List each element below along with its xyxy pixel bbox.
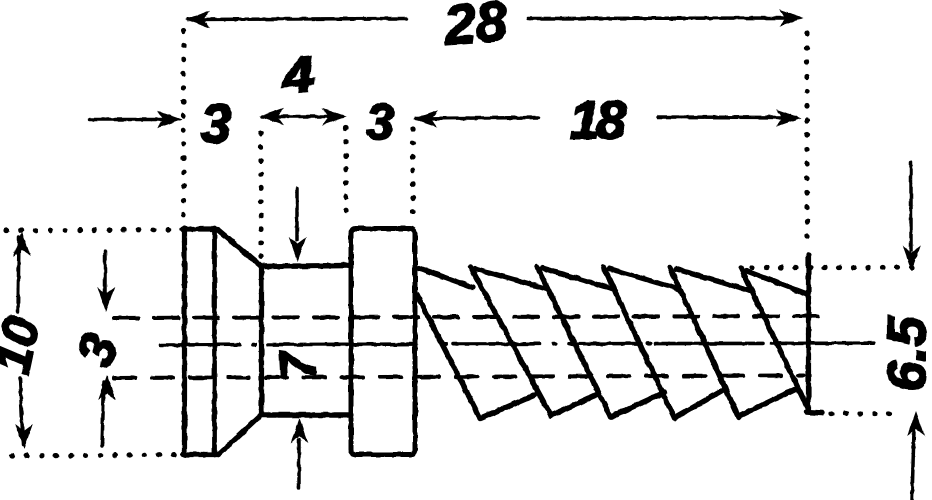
thread flank 3: [604, 267, 675, 418]
dim 28 arrowhead left: [185, 11, 210, 29]
extension dotted line x346: [343, 128, 348, 219]
dim 18 arrowhead left: [413, 110, 438, 128]
thread flank 2: [537, 267, 611, 418]
svg-text:3: 3: [366, 94, 394, 150]
dim 3 vertical arrowhead down: [97, 287, 115, 312]
thread bottom crest 3: [675, 390, 724, 418]
thread flank 4: [670, 268, 739, 418]
head cone bottom edge: [219, 415, 262, 455]
dim 3 vertical label: [66, 327, 130, 374]
thread crest 4: [676, 269, 751, 291]
dim 4 arrowhead left: [259, 108, 284, 126]
core dashed line upper y317: [114, 316, 829, 318]
dim 3 vertical shaft top: [103, 251, 107, 304]
thread crest 5 tip: [747, 271, 807, 294]
dim 7 shaft bottom: [297, 440, 301, 488]
dim 28 arrowhead right: [779, 9, 804, 27]
dim 6.5 shaft top: [909, 162, 913, 250]
dim 7 arrowhead up: [291, 418, 309, 443]
thread bottom crest 1: [551, 394, 599, 416]
thread flank 5: [741, 268, 808, 409]
thread bottom crest 2: [611, 393, 665, 418]
dotted line head bottom level y455: [12, 455, 183, 457]
dim 28 shaft right: [528, 16, 799, 20]
screw head right edge: [212, 228, 217, 455]
thread crest 2: [542, 268, 614, 289]
svg-text:10: 10: [0, 312, 50, 378]
dim 7 label: [269, 348, 326, 381]
dim 18 shaft left: [416, 118, 538, 119]
thread crest 1: [475, 269, 547, 290]
dim 18 arrowhead right: [776, 109, 801, 127]
dim 3 left shaft: [90, 118, 176, 122]
screw tip foot tick: [806, 412, 822, 413]
dim 28 shaft left: [188, 19, 406, 20]
dim 4 shaft: [262, 115, 343, 119]
dim 10 arrowhead bottom: [15, 424, 33, 449]
dotted line tip bottom level y413: [831, 411, 891, 416]
flange rectangle: [351, 229, 415, 455]
thread flank 1: [471, 267, 552, 416]
dim 18 shaft right: [658, 115, 796, 119]
center line dash-dot: [161, 343, 240, 347]
dim 10 shaft bottom: [20, 378, 23, 444]
svg-text:6.5: 6.5: [877, 316, 932, 392]
neck cylinder top edge: [261, 266, 349, 267]
neck cylinder bottom edge: [261, 412, 349, 417]
thread crest 3: [609, 269, 680, 290]
dim 7 shaft top: [295, 188, 299, 240]
extension dotted line x413: [410, 129, 415, 216]
svg-text:28: 28: [441, 0, 509, 56]
svg-text:3: 3: [66, 327, 130, 374]
dim 4 arrowhead right: [322, 108, 347, 126]
dim 6.5 label: [877, 316, 932, 392]
dim 3 left arrowhead: [157, 111, 182, 129]
head cone top edge: [218, 230, 262, 267]
dim 6.5 shaft bottom: [912, 430, 914, 500]
screw head bottom edge: [183, 452, 219, 457]
thread bottom crest 0: [480, 395, 535, 419]
dotted line head top level y230: [6, 230, 183, 231]
screw head left edge: [182, 228, 187, 455]
thread crest line 0: [419, 268, 473, 288]
extension dotted line x183: [181, 31, 186, 222]
dim 3 vertical shaft bottom: [102, 382, 104, 446]
extension dotted line x261: [258, 133, 263, 261]
svg-text:3: 3: [201, 93, 232, 155]
screw head top edge: [183, 226, 218, 231]
dim 10 shaft top: [18, 237, 19, 312]
extension dotted line x807: [804, 33, 809, 250]
thread bottom crest 4: [739, 389, 797, 417]
dotted line tip top level y267: [752, 265, 922, 270]
dim 3 vertical arrowhead up: [98, 375, 116, 400]
screw tip end line: [806, 255, 811, 409]
neck cylinder left edge: [259, 266, 264, 415]
core dashed line lower y377: [114, 376, 804, 379]
svg-text:8: 8: [596, 91, 626, 151]
svg-text:4: 4: [278, 46, 317, 105]
dim 6.5 arrowhead up: [907, 411, 925, 436]
dim 6.5 arrowhead down: [903, 246, 921, 271]
dim 10 label: [0, 312, 50, 378]
dim 7 arrowhead down: [289, 237, 307, 262]
dim 10 arrowhead top: [13, 232, 31, 257]
thread flank 0: [417, 295, 480, 418]
